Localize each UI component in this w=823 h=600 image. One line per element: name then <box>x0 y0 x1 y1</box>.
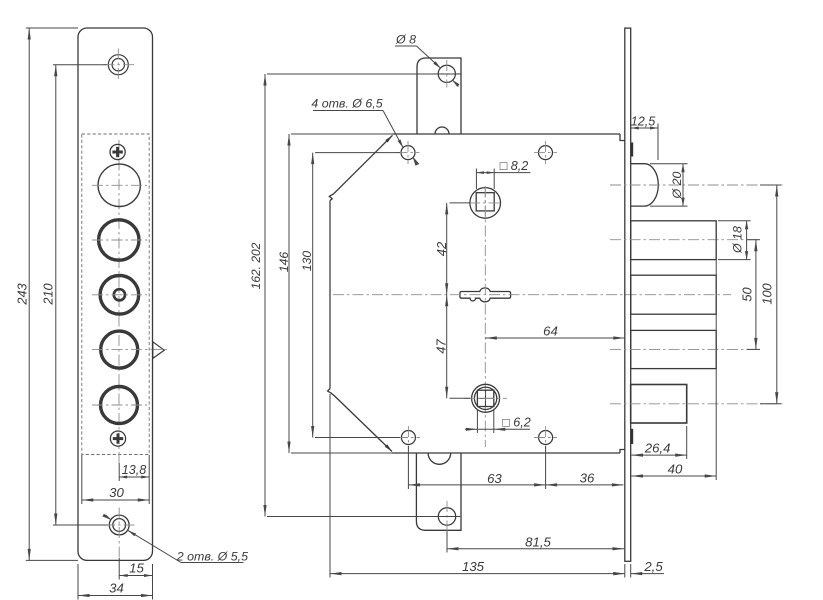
svg-text:2,5: 2,5 <box>643 559 663 574</box>
mount hole bottom right <box>534 426 557 449</box>
weld tick top <box>631 143 634 157</box>
svg-text:Ø 20: Ø 20 <box>670 171 684 199</box>
svg-text:Ø 8: Ø 8 <box>395 33 416 47</box>
dimension 202 <box>249 74 461 517</box>
svg-text:Ø 18: Ø 18 <box>731 226 745 254</box>
body step bottom right <box>620 450 625 454</box>
bottom mounting tab <box>416 453 461 530</box>
bottom tab notch <box>428 453 451 464</box>
bolt hole A left view <box>92 220 147 260</box>
svg-text:63: 63 <box>487 471 502 486</box>
spindle square hole 8.2 <box>469 186 501 220</box>
svg-text:26,4: 26,4 <box>644 441 671 456</box>
dimension 2.5 <box>613 559 664 577</box>
bolt hole D left view <box>92 387 147 424</box>
label 4 holes dia 6.5 <box>311 97 419 166</box>
svg-text:243: 243 <box>15 283 30 305</box>
bottom screw hole left view <box>104 508 135 559</box>
label dia 8 <box>395 33 460 87</box>
dimension square 6.2 <box>465 410 531 433</box>
dimension 42 <box>434 203 470 295</box>
dimension 130 <box>300 153 400 438</box>
dimension 34 <box>78 564 153 600</box>
mount hole bottom left <box>397 426 420 449</box>
dimension dia 18 <box>718 221 751 260</box>
lock body outline <box>330 134 620 453</box>
faceplate edge view <box>625 28 631 561</box>
dimension 210 <box>41 65 109 525</box>
svg-text:□ 8,2: □ 8,2 <box>500 159 529 173</box>
upper phillips screw <box>110 144 125 159</box>
main horizontal centerline <box>333 294 731 296</box>
top screw hole left view <box>104 49 135 83</box>
dimension 50 <box>740 240 761 350</box>
dimension 26.4 <box>632 426 687 459</box>
dimension 40 <box>632 221 717 480</box>
dimension 36 <box>546 471 624 487</box>
keyhole slot <box>460 288 511 302</box>
svg-text:42: 42 <box>434 241 449 256</box>
dimension 63 <box>408 446 545 489</box>
top tab hole <box>433 60 461 88</box>
dimension 135 <box>330 394 625 578</box>
dimension 47 <box>434 295 471 399</box>
svg-text:64: 64 <box>543 323 558 338</box>
dimension 15 <box>119 558 152 580</box>
dimension 64 <box>485 323 625 339</box>
body bottom-left chamfer <box>328 389 392 452</box>
mount hole top left <box>397 141 420 164</box>
dimension 243 <box>15 28 79 560</box>
top mounting tab <box>417 58 461 134</box>
deadbolt pin 3 <box>610 330 760 368</box>
bottom tab hole <box>433 501 461 531</box>
faceplate dashed insert outline <box>82 134 149 455</box>
bolt hole B with pin <box>92 276 147 315</box>
auxiliary deadbolt <box>610 385 783 424</box>
dimension square 8.2 <box>476 159 530 189</box>
body top-left chamfer <box>329 135 392 200</box>
svg-text:34: 34 <box>109 581 124 596</box>
svg-text:30: 30 <box>109 485 124 500</box>
faceplate front view outline <box>78 28 153 560</box>
body step top right <box>620 134 625 141</box>
latch bolt side view <box>610 164 783 206</box>
svg-text:162. 202: 162. 202 <box>249 242 263 289</box>
svg-text:15: 15 <box>129 561 144 576</box>
bolt hole C left view <box>92 331 169 368</box>
night-latch square hole 6.2 <box>464 384 507 412</box>
deadbolt pin 1 <box>610 221 760 260</box>
mount hole top right <box>534 141 557 164</box>
weld tick bottom <box>631 429 634 444</box>
svg-text:100: 100 <box>760 282 775 304</box>
lower phillips screw <box>110 431 125 446</box>
label 2 holes dia 5.5 <box>102 514 248 564</box>
svg-text:36: 36 <box>580 471 595 486</box>
svg-text:50: 50 <box>740 287 755 302</box>
deadbolt pin 2 <box>631 275 717 314</box>
svg-text:81,5: 81,5 <box>525 534 551 549</box>
dimension 12.5 <box>631 115 658 161</box>
squares vertical centerline <box>484 187 486 448</box>
dimension 13.8 <box>119 455 149 481</box>
svg-text:4 отв. Ø 6,5: 4 отв. Ø 6,5 <box>311 97 382 111</box>
svg-text:47: 47 <box>434 339 449 354</box>
dimension dia 20 <box>650 164 688 206</box>
svg-text:146: 146 <box>277 252 291 273</box>
svg-text:□ 6,2: □ 6,2 <box>502 416 531 430</box>
svg-text:135: 135 <box>462 559 485 574</box>
faceplate vertical centerline <box>118 140 120 463</box>
svg-text:40: 40 <box>668 462 683 477</box>
dimension 146 <box>277 134 393 453</box>
svg-text:210: 210 <box>41 282 56 305</box>
latch tip marker <box>153 342 164 359</box>
top tab notch <box>435 127 449 134</box>
svg-text:13,8: 13,8 <box>122 463 147 477</box>
cylinder hole <box>92 164 147 206</box>
svg-text:2 отв. Ø 5,5: 2 отв. Ø 5,5 <box>176 550 248 564</box>
svg-text:12,5: 12,5 <box>631 115 657 129</box>
dimension 81.5 <box>447 531 624 553</box>
svg-text:130: 130 <box>300 251 314 272</box>
dimension 100 <box>760 185 782 404</box>
dimension 30 <box>82 455 149 504</box>
